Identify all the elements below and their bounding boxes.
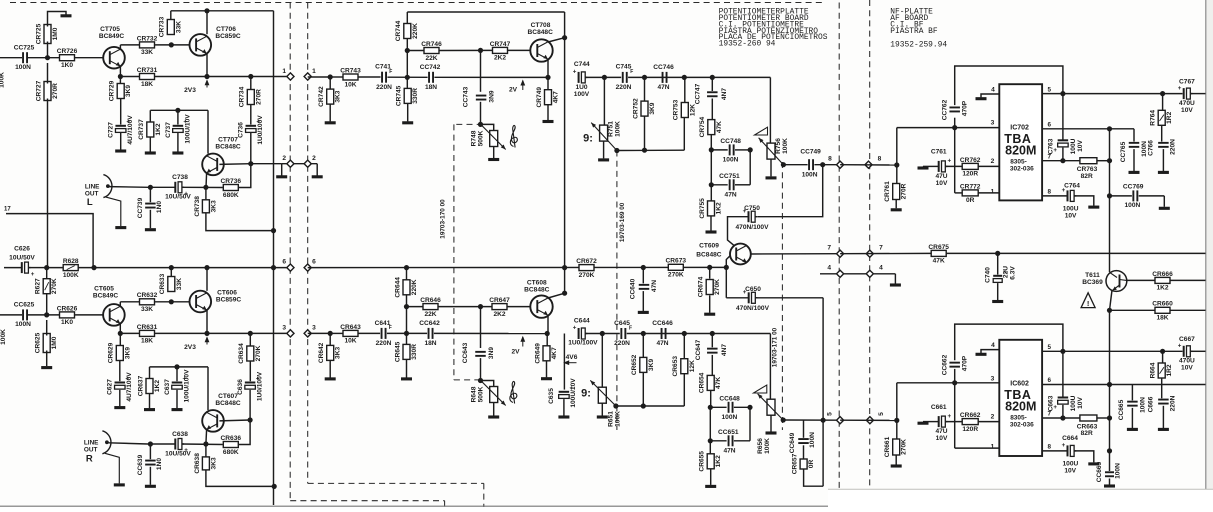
- svg-text:CC643: CC643: [462, 342, 469, 363]
- svg-text:1: 1: [991, 188, 995, 195]
- svg-text:100U/10V: 100U/10V: [570, 378, 577, 408]
- svg-text:100K: 100K: [782, 138, 789, 154]
- svg-text:100N: 100N: [1115, 463, 1122, 479]
- svg-text:500K: 500K: [477, 386, 484, 402]
- svg-text:220K: 220K: [412, 23, 419, 39]
- svg-text:C740: C740: [985, 267, 992, 283]
- svg-text:100U: 100U: [1063, 461, 1079, 468]
- svg-text:1M0: 1M0: [52, 27, 59, 40]
- svg-text:CR629: CR629: [108, 342, 115, 363]
- svg-text:6: 6: [312, 259, 316, 266]
- svg-text:10V: 10V: [1077, 140, 1084, 152]
- svg-text:C767: C767: [1179, 79, 1195, 86]
- svg-text:1R2: 1R2: [1166, 364, 1173, 376]
- svg-text:6: 6: [1048, 122, 1052, 129]
- svg-text:BC859C: BC859C: [216, 296, 242, 303]
- svg-text:1K2: 1K2: [155, 123, 162, 135]
- svg-text:LINE: LINE: [84, 440, 99, 447]
- svg-text:100N: 100N: [723, 157, 739, 164]
- svg-text:CR755: CR755: [699, 198, 706, 219]
- svg-text:1K2: 1K2: [715, 455, 722, 467]
- svg-text:C644: C644: [574, 317, 590, 324]
- svg-text:120R: 120R: [962, 426, 978, 433]
- svg-text:CC746: CC746: [653, 64, 674, 71]
- svg-text:CR674: CR674: [698, 276, 705, 297]
- svg-text:BC859C: BC859C: [215, 33, 241, 40]
- svg-text:CR647: CR647: [489, 297, 510, 304]
- svg-text:CR625: CR625: [35, 332, 42, 353]
- svg-text:19703-170 00: 19703-170 00: [439, 199, 446, 239]
- svg-text:1: 1: [991, 443, 995, 450]
- svg-text:220K: 220K: [411, 279, 418, 295]
- svg-text:C764: C764: [1064, 182, 1080, 189]
- svg-text:CC639: CC639: [137, 454, 144, 475]
- svg-text:C627: C627: [107, 379, 114, 395]
- svg-text:100N: 100N: [15, 64, 31, 71]
- svg-text:R627: R627: [35, 278, 42, 294]
- svg-text:CR737: CR737: [138, 119, 145, 140]
- svg-text:18N: 18N: [425, 84, 437, 91]
- svg-text:CC648: CC648: [719, 396, 740, 403]
- svg-text:100N: 100N: [722, 414, 738, 421]
- svg-text:10V: 10V: [1181, 365, 1193, 372]
- svg-text:8305-: 8305-: [1010, 414, 1027, 421]
- svg-text:270K: 270K: [255, 345, 262, 361]
- svg-text:CR662: CR662: [960, 412, 981, 419]
- svg-text:10U/50V: 10U/50V: [165, 450, 191, 457]
- svg-text:CR726: CR726: [57, 48, 78, 55]
- svg-text:CR745: CR745: [396, 85, 403, 106]
- svg-text:R656: R656: [757, 438, 764, 454]
- svg-text:CR632: CR632: [137, 292, 158, 299]
- svg-text:CR633: CR633: [159, 273, 166, 294]
- svg-text:3: 3: [312, 324, 316, 331]
- svg-text:CC647: CC647: [695, 339, 702, 360]
- svg-text:+: +: [1178, 343, 1182, 350]
- svg-text:5: 5: [1048, 344, 1052, 351]
- svg-text:18K: 18K: [141, 338, 153, 345]
- svg-text:F: F: [389, 325, 392, 331]
- svg-text:82R: 82R: [1081, 430, 1093, 437]
- svg-text:1K2: 1K2: [716, 202, 723, 214]
- svg-text:18K: 18K: [1156, 315, 1168, 322]
- svg-text:3K9: 3K9: [124, 347, 131, 359]
- svg-text:270K: 270K: [668, 272, 684, 279]
- svg-text:3K3: 3K3: [210, 457, 217, 469]
- svg-text:47N: 47N: [725, 192, 737, 199]
- svg-text:220N: 220N: [614, 340, 630, 347]
- svg-text:CC749: CC749: [800, 149, 821, 156]
- svg-text:CR637: CR637: [137, 375, 144, 396]
- svg-text:CC769: CC769: [1123, 184, 1144, 191]
- svg-text:CR725: CR725: [35, 23, 42, 44]
- svg-text:10V: 10V: [1064, 468, 1076, 475]
- svg-text:C635: C635: [548, 388, 555, 404]
- svg-text:2V3: 2V3: [184, 87, 196, 94]
- svg-text:CR643: CR643: [340, 324, 361, 331]
- svg-text:270K: 270K: [901, 439, 908, 455]
- svg-text:CR673: CR673: [666, 258, 687, 265]
- svg-text:4K7: 4K7: [551, 347, 558, 359]
- svg-text:220N: 220N: [376, 84, 392, 91]
- svg-text:CR631: CR631: [137, 324, 158, 331]
- svg-text:19352-259.94: 19352-259.94: [890, 41, 947, 50]
- svg-text:R651: R651: [608, 411, 615, 427]
- svg-text:CR626: CR626: [57, 305, 78, 312]
- svg-text:BC848C: BC848C: [528, 29, 554, 36]
- svg-text:470U: 470U: [1179, 100, 1195, 107]
- svg-text:C766: C766: [1147, 140, 1154, 156]
- svg-text:9:: 9:: [583, 133, 593, 145]
- svg-text:19703-171 00: 19703-171 00: [771, 327, 778, 367]
- svg-text:CR675: CR675: [928, 244, 949, 251]
- svg-text:C637: C637: [164, 379, 171, 395]
- svg-text:0R: 0R: [808, 460, 815, 469]
- svg-text:18K: 18K: [141, 81, 153, 88]
- svg-text:4: 4: [827, 265, 831, 272]
- svg-text:3K9: 3K9: [649, 102, 656, 114]
- svg-text:CC669: CC669: [1096, 461, 1103, 482]
- svg-text:CR762: CR762: [960, 157, 981, 164]
- svg-text:CR654: CR654: [699, 372, 706, 393]
- svg-text:R664: R664: [1150, 362, 1157, 378]
- svg-text:47N: 47N: [656, 340, 668, 347]
- svg-text:1K0: 1K0: [61, 62, 73, 69]
- svg-text:47U: 47U: [935, 173, 947, 180]
- svg-text:CR754: CR754: [699, 117, 706, 138]
- svg-text:6: 6: [1048, 377, 1052, 384]
- svg-text:C666: C666: [1147, 396, 1154, 412]
- svg-text:4K7: 4K7: [553, 91, 560, 103]
- svg-text:5: 5: [1048, 86, 1052, 93]
- svg-text:220N: 220N: [1170, 395, 1177, 411]
- svg-text:5: 5: [827, 412, 834, 416]
- svg-text:100U/100V: 100U/100V: [183, 369, 190, 403]
- svg-text:3K3: 3K3: [335, 347, 342, 359]
- svg-text:9:: 9:: [581, 388, 591, 400]
- svg-text:CR657: CR657: [792, 453, 799, 474]
- svg-text:CC725: CC725: [14, 45, 35, 52]
- svg-text:LINE: LINE: [85, 183, 100, 190]
- svg-text:CR636: CR636: [221, 435, 242, 442]
- svg-text:6.3V: 6.3V: [1009, 266, 1016, 280]
- svg-text:2K2: 2K2: [493, 311, 505, 318]
- svg-text:C763: C763: [1048, 138, 1055, 154]
- svg-text:CC739: CC739: [137, 197, 144, 218]
- svg-text:3N9: 3N9: [489, 90, 496, 102]
- svg-text:R751: R751: [608, 121, 615, 137]
- svg-text:3K9: 3K9: [648, 359, 655, 371]
- svg-text:C626: C626: [14, 246, 30, 253]
- svg-text:C667: C667: [1179, 336, 1195, 343]
- svg-text:CR743: CR743: [340, 67, 361, 74]
- svg-text:CC642: CC642: [419, 320, 440, 327]
- svg-text:CR653: CR653: [672, 356, 679, 377]
- svg-text:4U7/100V: 4U7/100V: [126, 372, 133, 402]
- svg-text:100K: 100K: [63, 272, 79, 279]
- svg-text:1R2: 1R2: [1166, 111, 1173, 123]
- svg-text:BC849C: BC849C: [99, 33, 125, 40]
- svg-text:4: 4: [879, 265, 883, 272]
- svg-text:CC747: CC747: [695, 83, 702, 104]
- svg-text:19352-260 94: 19352-260 94: [719, 39, 776, 48]
- svg-text:CR729: CR729: [109, 80, 116, 101]
- svg-text:47N: 47N: [657, 84, 669, 91]
- svg-text:47N: 47N: [651, 280, 658, 292]
- svg-text:8305-: 8305-: [1010, 159, 1027, 166]
- svg-text:CR736: CR736: [221, 178, 242, 185]
- svg-text:BC848C: BC848C: [524, 286, 550, 293]
- svg-text:8: 8: [878, 156, 882, 163]
- svg-text:BC369: BC369: [1082, 279, 1103, 286]
- svg-text:CR761: CR761: [884, 181, 891, 202]
- svg-text:3N9: 3N9: [488, 347, 495, 359]
- svg-text:BC849C: BC849C: [93, 293, 119, 300]
- svg-text:CC640: CC640: [630, 278, 637, 299]
- svg-text:CC651: CC651: [718, 429, 739, 436]
- svg-text:CR738: CR738: [194, 196, 201, 217]
- svg-text:22K: 22K: [424, 311, 436, 318]
- svg-text:820M: 820M: [1005, 144, 1036, 158]
- svg-text:100U: 100U: [1070, 395, 1077, 411]
- svg-text:500K: 500K: [477, 130, 484, 146]
- svg-text:IC602: IC602: [1010, 380, 1029, 387]
- svg-text:CR634: CR634: [238, 343, 245, 364]
- svg-text:17: 17: [4, 207, 11, 213]
- svg-text:2K2: 2K2: [494, 55, 506, 62]
- svg-text:330R: 330R: [411, 344, 418, 360]
- svg-text:CR642: CR642: [318, 342, 325, 363]
- svg-text:CR772: CR772: [960, 183, 981, 190]
- svg-text:R748: R748: [470, 130, 477, 146]
- svg-text:CR731: CR731: [137, 67, 158, 74]
- svg-text:120R: 120R: [962, 171, 978, 178]
- svg-text:10U/50V: 10U/50V: [9, 255, 35, 262]
- svg-text:100U/10V: 100U/10V: [184, 114, 191, 144]
- svg-text:33K: 33K: [141, 49, 153, 56]
- svg-text:CC751: CC751: [719, 173, 740, 180]
- svg-text:10K: 10K: [344, 338, 356, 345]
- svg-text:2: 2: [282, 155, 286, 162]
- svg-text:47N: 47N: [723, 448, 735, 455]
- svg-text:5: 5: [878, 412, 885, 416]
- svg-text:4: 4: [991, 342, 995, 349]
- svg-text:CR660: CR660: [1152, 301, 1173, 308]
- svg-text:CC748: CC748: [720, 138, 741, 145]
- svg-text:470N/100V: 470N/100V: [736, 224, 770, 231]
- svg-text:2: 2: [991, 414, 995, 421]
- svg-text:100K: 100K: [764, 438, 771, 454]
- svg-text:IC702: IC702: [1010, 125, 1029, 132]
- svg-text:CR732: CR732: [137, 35, 158, 42]
- svg-text:C663: C663: [1048, 395, 1055, 411]
- svg-text:100K: 100K: [615, 411, 622, 427]
- svg-text:CC765: CC765: [1120, 141, 1127, 162]
- svg-text:CR655: CR655: [699, 451, 706, 472]
- svg-text:2V: 2V: [511, 349, 520, 356]
- svg-text:6: 6: [282, 259, 286, 266]
- svg-text:3K9: 3K9: [125, 85, 132, 97]
- svg-text:1K0: 1K0: [61, 319, 73, 326]
- svg-text:1U0/100V: 1U0/100V: [257, 371, 264, 401]
- svg-text:820M: 820M: [1005, 399, 1036, 413]
- svg-text:CR747: CR747: [490, 41, 511, 48]
- svg-text:CR752: CR752: [632, 98, 639, 119]
- svg-text:330R: 330R: [412, 88, 419, 104]
- svg-text:2: 2: [991, 158, 995, 165]
- svg-text:C645: C645: [614, 320, 630, 327]
- svg-text:270R: 270R: [901, 183, 908, 199]
- svg-text:270R: 270R: [255, 89, 262, 105]
- svg-text:1U0: 1U0: [575, 84, 587, 91]
- svg-text:CR646: CR646: [420, 297, 441, 304]
- svg-text:7: 7: [827, 244, 831, 251]
- svg-text:47K: 47K: [715, 377, 722, 389]
- svg-text:PIASTRA BF: PIASTRA BF: [890, 27, 938, 36]
- svg-text:3K3: 3K3: [210, 200, 217, 212]
- svg-text:CC665: CC665: [1118, 399, 1125, 420]
- svg-text:C736: C736: [238, 122, 245, 138]
- svg-text:T611: T611: [1085, 272, 1100, 279]
- svg-text:470N/100V: 470N/100V: [736, 305, 770, 312]
- svg-text:CC625: CC625: [14, 302, 35, 309]
- svg-text:302-036: 302-036: [1010, 166, 1034, 173]
- svg-text:470U: 470U: [1179, 358, 1195, 365]
- svg-text:CR672: CR672: [576, 258, 597, 265]
- svg-text:47U: 47U: [935, 428, 947, 435]
- svg-text:4V6: 4V6: [566, 354, 578, 361]
- svg-text:220N: 220N: [376, 340, 392, 347]
- svg-text:33K: 33K: [176, 278, 183, 290]
- svg-text:R756: R756: [775, 138, 782, 154]
- svg-text:100N: 100N: [1141, 141, 1148, 157]
- svg-text:10V: 10V: [1065, 213, 1077, 220]
- svg-text:CC649: CC649: [789, 432, 796, 453]
- svg-text:270R: 270R: [52, 83, 59, 99]
- svg-text:10V: 10V: [1077, 397, 1084, 409]
- svg-text:100U: 100U: [1063, 206, 1079, 213]
- svg-text:C661: C661: [931, 404, 947, 411]
- svg-text:19703-169 00: 19703-169 00: [619, 202, 626, 242]
- svg-text:CC742: CC742: [420, 64, 441, 71]
- svg-text:302-036: 302-036: [1010, 421, 1034, 428]
- svg-text:CR644: CR644: [394, 277, 401, 298]
- svg-text:8: 8: [1048, 444, 1052, 451]
- svg-text:100K: 100K: [0, 329, 7, 345]
- svg-text:100N: 100N: [1125, 202, 1141, 209]
- svg-text:1N0: 1N0: [156, 201, 163, 213]
- svg-text:100V: 100V: [574, 91, 590, 98]
- svg-text:1K2: 1K2: [154, 380, 161, 392]
- svg-text:+: +: [31, 271, 35, 278]
- svg-text:1M0: 1M0: [51, 336, 58, 349]
- svg-text:R764: R764: [1150, 110, 1157, 126]
- svg-text:7: 7: [879, 244, 883, 251]
- svg-text:100N: 100N: [802, 172, 818, 179]
- svg-text:C750: C750: [744, 205, 760, 212]
- svg-text:33K: 33K: [175, 21, 182, 33]
- svg-text:10V: 10V: [936, 180, 948, 187]
- svg-text:CR733: CR733: [159, 16, 166, 37]
- svg-text:C738: C738: [172, 174, 188, 181]
- svg-text:22U: 22U: [1002, 266, 1009, 278]
- svg-text:12K: 12K: [689, 104, 696, 116]
- svg-text:4N7: 4N7: [721, 88, 728, 100]
- svg-text:2: 2: [312, 155, 316, 162]
- svg-text:82R: 82R: [1081, 173, 1093, 180]
- svg-text:CC662: CC662: [941, 354, 948, 375]
- svg-text:CR649: CR649: [534, 343, 541, 364]
- svg-text:BC848C: BC848C: [215, 400, 241, 407]
- svg-text:220N: 220N: [1170, 139, 1177, 155]
- svg-text:CC646: CC646: [652, 320, 673, 327]
- svg-text:3K3: 3K3: [335, 90, 342, 102]
- svg-text:F: F: [389, 69, 392, 75]
- svg-text:100K: 100K: [615, 121, 622, 137]
- svg-text:CR753: CR753: [673, 99, 680, 120]
- svg-text:10K: 10K: [344, 81, 356, 88]
- svg-text:470P: 470P: [962, 355, 969, 371]
- svg-text:0R: 0R: [966, 197, 975, 204]
- svg-text:47K: 47K: [716, 121, 723, 133]
- svg-text:C636: C636: [237, 379, 244, 395]
- svg-text:+: +: [1178, 85, 1182, 92]
- svg-text:CT609: CT609: [699, 242, 719, 249]
- svg-text:CR645: CR645: [394, 341, 401, 362]
- svg-text:100U: 100U: [1070, 138, 1077, 154]
- svg-text:1: 1: [312, 68, 316, 75]
- svg-text:100N: 100N: [809, 432, 816, 448]
- svg-text:BC848C: BC848C: [696, 251, 722, 258]
- svg-text:3: 3: [991, 120, 995, 127]
- svg-text:CC743: CC743: [463, 86, 470, 107]
- svg-text:1K2: 1K2: [1156, 285, 1168, 292]
- svg-text:+: +: [947, 413, 951, 420]
- svg-text:CR661: CR661: [884, 436, 891, 457]
- svg-text:+: +: [947, 158, 951, 165]
- svg-text:270K: 270K: [51, 278, 58, 294]
- svg-text:8: 8: [828, 156, 832, 163]
- svg-text:R628: R628: [63, 258, 79, 265]
- svg-text:100N: 100N: [15, 321, 31, 328]
- svg-text:CR746: CR746: [421, 41, 442, 48]
- svg-text:10U/50V: 10U/50V: [165, 194, 191, 201]
- svg-text:C664: C664: [1062, 435, 1078, 442]
- svg-text:10V: 10V: [1181, 107, 1193, 114]
- svg-text:R: R: [86, 453, 93, 464]
- svg-text:CR744: CR744: [395, 20, 402, 41]
- svg-text:1: 1: [282, 68, 286, 75]
- svg-text:CR652: CR652: [631, 354, 638, 375]
- svg-text:R648: R648: [470, 386, 477, 402]
- svg-text:CR727: CR727: [35, 80, 42, 101]
- svg-text:3: 3: [991, 375, 995, 382]
- svg-text:3: 3: [282, 324, 286, 331]
- svg-text:1U0/100V: 1U0/100V: [257, 115, 264, 145]
- svg-text:18N: 18N: [424, 340, 436, 347]
- svg-text:F: F: [630, 69, 633, 75]
- svg-text:+: +: [573, 69, 577, 76]
- svg-text:33K: 33K: [141, 306, 153, 313]
- svg-text:270K: 270K: [579, 272, 595, 279]
- svg-text:C727: C727: [108, 122, 115, 138]
- svg-text:680K: 680K: [223, 449, 239, 456]
- svg-text:CR749: CR749: [536, 87, 543, 108]
- svg-text:220N: 220N: [616, 84, 632, 91]
- svg-text:+: +: [1062, 442, 1066, 449]
- svg-text:12K: 12K: [689, 360, 696, 372]
- svg-text:CC762: CC762: [941, 99, 948, 120]
